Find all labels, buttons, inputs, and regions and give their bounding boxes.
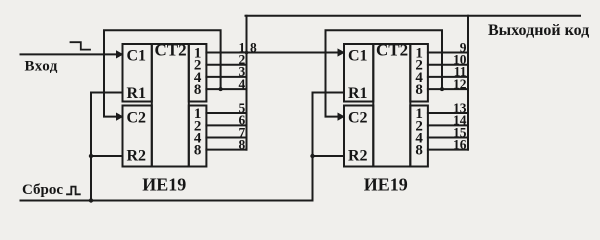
svg-text:C1: C1 — [348, 48, 368, 65]
pulse symbol at Сброс — [67, 187, 80, 195]
svg-text:16: 16 — [453, 137, 467, 152]
counter U1 left pin field bottom box — [123, 106, 152, 167]
wire U2 output row 10 — [428, 64, 468, 66]
junction dot R2 of U2 — [310, 154, 314, 158]
svg-text:8: 8 — [194, 82, 202, 98]
pin weight labels U2 group 2: 1 2 4 8 — [415, 106, 423, 159]
wire U2 output row 16 — [428, 149, 468, 151]
svg-text:R1: R1 — [127, 85, 147, 102]
counter U2 middle CT2 field — [373, 44, 410, 167]
wire top output bus (Выходной код) — [246, 15, 581, 17]
svg-text:4: 4 — [238, 76, 245, 91]
arrowhead U2 C1 dynamic input — [338, 48, 346, 56]
wire U1 output row 5 — [206, 112, 246, 114]
wire U1 output row 3 — [206, 76, 246, 78]
wire U2 reset vertical from Сброс line — [313, 93, 345, 201]
svg-text:Выходной код: Выходной код — [488, 22, 589, 39]
svg-text:8: 8 — [250, 40, 257, 55]
arrowhead U1 C1 dynamic input — [116, 50, 124, 58]
wire U1 output row 1 continuing to U2 C1 input — [206, 52, 339, 54]
counter U1 middle CT2 field — [152, 44, 189, 167]
wire U1 output row 8 — [206, 149, 246, 151]
wire U2 output row 12 — [428, 88, 468, 90]
wire U2 output row 9 — [428, 52, 468, 54]
wire U1 output row 6 — [206, 124, 246, 126]
wire U1 reset vertical from Сброс line — [91, 93, 123, 201]
svg-text:R2: R2 — [127, 148, 147, 165]
pin weight labels U1 group 2: 1 2 4 8 — [194, 106, 202, 159]
junction dot R2 of U1 — [89, 154, 93, 158]
svg-text:Сброс: Сброс — [22, 182, 63, 198]
counter U2 (ИЕ19) body: left pin field top box — [344, 44, 373, 102]
wire U1 R2 input — [91, 155, 123, 157]
wire U2 feedback loop from output 12 to C2 input — [326, 30, 443, 116]
svg-text:CT2: CT2 — [376, 41, 408, 60]
wire U1 output row 4 — [206, 88, 246, 90]
wire Вход input line — [21, 53, 119, 55]
svg-text:8: 8 — [238, 137, 245, 152]
svg-text:CT2: CT2 — [155, 41, 187, 60]
wire U1 output row 7 — [206, 137, 246, 139]
svg-text:ИЕ19: ИЕ19 — [142, 175, 186, 195]
output code bit labels 1-8 of U1 — [238, 40, 245, 152]
counter U1 (ИЕ19) body: left pin field top box — [123, 44, 152, 102]
arrowhead U2 C2 dynamic input — [338, 113, 346, 121]
wire U2 R2 input — [313, 155, 345, 157]
output code bit labels 9-16 of U2 — [453, 40, 467, 152]
pin weight labels U2 group 1: 1 2 4 8 — [415, 46, 423, 99]
junction dot U2 loop at row 12 — [440, 87, 444, 91]
counter U1 output pin field top box — [189, 44, 207, 102]
junction dot Сброс line at U1 vertical — [89, 198, 93, 202]
wire U1 feedback loop from output 8 to C2 input — [104, 30, 221, 116]
counter U2 output pin field bottom box — [410, 106, 428, 167]
svg-text:C2: C2 — [127, 109, 147, 126]
wire vertical bus collector of U2 outputs — [467, 16, 469, 150]
svg-text:C2: C2 — [348, 109, 368, 126]
arrowhead U1 C2 dynamic input — [116, 113, 124, 121]
svg-text:R1: R1 — [348, 85, 368, 102]
svg-text:Вход: Вход — [25, 59, 58, 75]
wire Сброс bottom reset line — [21, 200, 313, 202]
wire U1 output row 2 — [206, 64, 246, 66]
counter U2 output pin field top box — [410, 44, 428, 102]
svg-text:8: 8 — [415, 82, 423, 98]
counter U2 left pin field bottom box — [344, 106, 373, 167]
svg-text:12: 12 — [453, 76, 467, 91]
falling-edge pulse symbol at Вход — [71, 42, 91, 49]
wire U2 output row 11 — [428, 76, 468, 78]
svg-text:R2: R2 — [348, 148, 368, 165]
junction dot bus at row 1 — [245, 51, 249, 55]
junction dot U1 loop at row 4 — [219, 87, 223, 91]
svg-text:ИЕ19: ИЕ19 — [364, 175, 408, 195]
wire U2 output row 13 — [428, 112, 468, 114]
wire U2 output row 14 — [428, 124, 468, 126]
counter U1 output pin field bottom box — [189, 106, 207, 167]
wire vertical bus collector of U1 outputs — [246, 16, 248, 150]
wire U2 output row 15 — [428, 137, 468, 139]
pin weight labels U1 group 1: 1 2 4 8 — [194, 46, 202, 99]
svg-text:8: 8 — [194, 143, 202, 159]
svg-text:C1: C1 — [127, 48, 147, 65]
svg-text:8: 8 — [415, 143, 423, 159]
